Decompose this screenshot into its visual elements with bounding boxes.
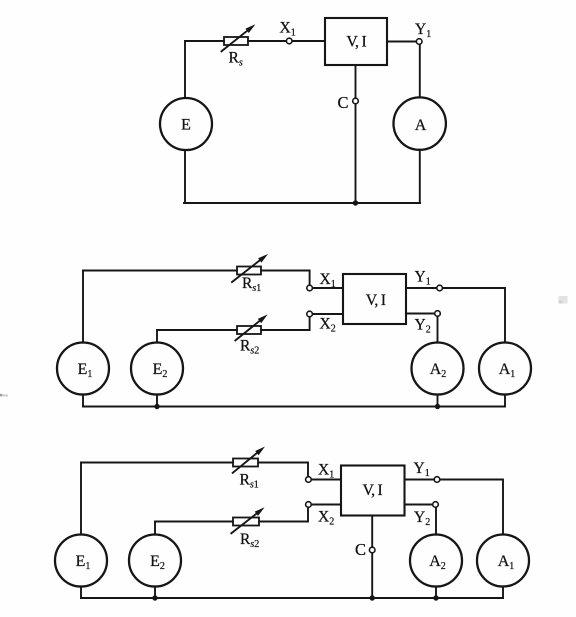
junction dot E2 / bottom rail: [154, 404, 159, 409]
wire: E2 bottom to bottom rail: [156, 394, 158, 406]
terminal Y1: [416, 39, 422, 45]
wire: right vertical from terminal Y1 down to ammeter A: [419, 44, 421, 97]
op box U2: V,I instrument: [343, 274, 406, 324]
source E2 circle: [131, 343, 183, 395]
wire: source E bottom to bottom rail: [184, 150, 186, 203]
terminal X2 (circuit 2): [307, 311, 313, 317]
wire: terminal Y2 down to ammeter A2: [437, 316, 439, 343]
wire: E2 bottom to bottom rail: [154, 586, 156, 598]
wire: V,I box right to terminal Y2: [405, 504, 433, 506]
wire: resistor Rs1 to corner, down to terminal X1: [259, 463, 308, 477]
svg-text:V, I: V, I: [366, 292, 386, 309]
source E circle: [160, 98, 212, 150]
wire: resistor Rs2 to corner, up to terminal X2: [261, 317, 310, 330]
svg-text:E: E: [181, 117, 191, 134]
wire: ammeter A2 bottom to bottom rail: [435, 586, 437, 598]
wire: resistor Rs2 to corner, up to terminal X2: [259, 507, 308, 521]
resistor Rs1 arrow: [232, 254, 268, 282]
wire: E1 bottom to bottom rail: [80, 586, 82, 598]
wire: E1 vertical from top rail to source circle: [82, 271, 84, 343]
junction dot A2 / bottom rail: [435, 404, 440, 409]
resistor Rs2 arrow (circuit 3): [231, 507, 264, 533]
resistor Rs1 body (circuit 3): [233, 459, 258, 467]
source E1 circle (circuit 3): [55, 535, 107, 587]
resistor Rs (variable) body: [224, 37, 248, 45]
resistor Rs1 arrow (circuit 3): [233, 447, 265, 473]
wire: terminal Y1 right then down to ammeter A1: [442, 288, 505, 343]
svg-text:C: C: [337, 93, 348, 112]
resistor Rs2 body: [237, 326, 261, 334]
wire: C branch from V,I box bottom to bottom rail: [371, 516, 373, 599]
svg-text:V, I: V, I: [346, 34, 366, 51]
wire: top rail from E1 to resistor Rs1: [83, 270, 237, 272]
wire: ammeter A bottom to bottom rail: [419, 150, 421, 203]
terminal Y2 (circuit 3): [433, 502, 439, 508]
resistor Rs2 arrow: [235, 314, 267, 340]
scan artifact: faint dash at left margin: [0, 394, 3, 397]
terminal Y2 (circuit 2): [435, 311, 441, 317]
junction dot A2 / bottom rail (circuit 3): [433, 595, 438, 600]
ammeter A2 circle: [412, 343, 464, 395]
wire: terminal X1 to V,I box left: [292, 40, 325, 42]
wire: V,I box right to terminal Y1: [387, 41, 417, 43]
terminal C: [353, 98, 359, 104]
ammeter A1 circle: [479, 343, 531, 395]
resistor Rs arrow: [222, 24, 256, 51]
junction dot at C branch / bottom rail: [353, 200, 358, 205]
svg-text:A: A: [415, 117, 427, 134]
wire: ammeter A1 bottom to bottom rail: [502, 586, 504, 598]
svg-text:V, I: V, I: [363, 482, 383, 499]
op box U1: V,I instrument: [325, 18, 387, 65]
terminal X2 (circuit 3): [306, 502, 312, 508]
wire: top-left horizontal from E branch to resistor Rs: [185, 40, 224, 42]
wire: terminal X2 to V,I box left: [312, 313, 343, 315]
wire: ammeter A2 bottom to bottom rail: [437, 394, 439, 406]
wire: V,I box right to terminal Y1: [405, 479, 435, 481]
scan artifact: faint smudge at right margin: [559, 296, 568, 304]
junction dot E2 / bottom rail (circuit 3): [152, 595, 157, 600]
terminal X1 (circuit 3): [306, 477, 312, 483]
junction dot C branch / bottom rail (circuit 3): [370, 595, 375, 600]
wire: left vertical from top wire down to source E: [184, 41, 186, 98]
wire: V,I box right to terminal Y2: [406, 313, 435, 315]
ammeter A2 circle (circuit 3): [410, 535, 462, 587]
op box U3: V,I instrument: [341, 466, 405, 516]
wire: E2 vertical up to Rs2 rail: [156, 330, 158, 343]
wire: Rs2 rail from E2 to resistor Rs2: [155, 521, 233, 523]
terminal X1: [286, 38, 292, 44]
wire: V,I box right to terminal Y1: [406, 287, 437, 289]
source E1 circle: [57, 343, 109, 395]
wire: bottom rail of circuit 3: [81, 597, 503, 599]
wire: ammeter A1 bottom to bottom rail: [504, 394, 506, 406]
terminal C (circuit 3): [369, 547, 375, 553]
resistor Rs1 body: [237, 267, 261, 275]
wire: terminal Y2 down to ammeter A2: [435, 507, 437, 534]
wire: terminal Y1 right then down to ammeter A1: [440, 480, 503, 535]
svg-text:C: C: [355, 540, 366, 559]
ammeter A1 circle (circuit 3): [477, 535, 529, 587]
wire: terminal X2 to V,I box left: [311, 504, 341, 506]
wire: terminal X1 to V,I box left: [312, 287, 343, 289]
wire: E1 bottom to bottom rail: [82, 394, 84, 406]
resistor Rs2 body (circuit 3): [233, 518, 259, 526]
wire: E1 vertical from top rail to source circle: [80, 463, 82, 535]
wire: terminal X1 to V,I box left: [311, 479, 341, 481]
wire: resistor Rs1 to corner, down to terminal X1: [261, 271, 310, 286]
wire: Rs2 rail from E2 to resistor Rs2: [157, 329, 237, 331]
wire: E2 vertical up to Rs2 rail: [154, 522, 156, 535]
terminal Y1 (circuit 3): [434, 477, 440, 483]
source E2 circle (circuit 3): [129, 535, 181, 587]
terminal X1 (circuit 2): [307, 285, 313, 291]
wire: resistor Rs right side to terminal X1: [248, 40, 287, 42]
wire: bottom rail of circuit 1: [184, 202, 420, 204]
wire: C branch vertical from V,I box bottom to bottom rail: [355, 65, 357, 203]
wire: top rail from E1 to resistor Rs1: [81, 462, 233, 464]
ammeter A circle: [394, 97, 446, 149]
wire: bottom rail of circuit 2: [83, 406, 505, 408]
terminal Y1 (circuit 2): [437, 285, 443, 291]
